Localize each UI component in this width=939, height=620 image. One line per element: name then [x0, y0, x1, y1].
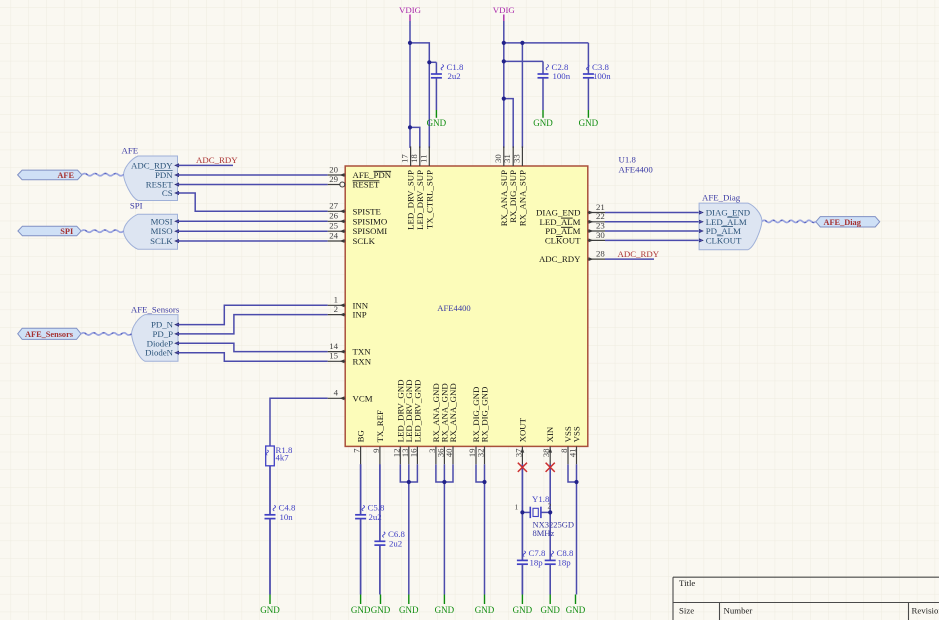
svg-text:ADC_RDY: ADC_RDY: [618, 249, 660, 259]
svg-text:ADC_RDY: ADC_RDY: [131, 160, 173, 170]
svg-text:CLKOUT: CLKOUT: [545, 235, 581, 245]
svg-text:TX_REF: TX_REF: [375, 410, 385, 442]
svg-text:2: 2: [334, 304, 338, 314]
svg-text:18p: 18p: [558, 558, 572, 568]
svg-text:SPISTE: SPISTE: [353, 206, 381, 216]
svg-text:RX_ANA_SUP: RX_ANA_SUP: [517, 170, 527, 226]
svg-text:RX_ANA_GND: RX_ANA_GND: [448, 383, 458, 442]
svg-text:29: 29: [329, 174, 338, 184]
svg-text:2u2: 2u2: [448, 71, 461, 81]
svg-text:GND: GND: [533, 118, 553, 128]
svg-text:32: 32: [476, 449, 486, 458]
svg-text:7: 7: [352, 448, 362, 453]
svg-text:LED_DRV_GND: LED_DRV_GND: [412, 380, 422, 443]
svg-text:40: 40: [444, 448, 454, 457]
svg-text:SCLK: SCLK: [150, 236, 173, 246]
svg-text:15: 15: [329, 351, 338, 361]
svg-text:BG: BG: [356, 430, 366, 443]
svg-text:28: 28: [596, 249, 605, 259]
svg-text:4: 4: [334, 388, 339, 398]
svg-text:33: 33: [511, 154, 521, 163]
svg-text:GND: GND: [540, 605, 560, 615]
svg-text:U1.8: U1.8: [619, 155, 637, 165]
svg-text:DiodeN: DiodeN: [145, 348, 173, 358]
svg-text:MOSI: MOSI: [151, 216, 173, 226]
svg-text:Title: Title: [679, 578, 695, 588]
svg-text:TX_CTRL_SUP: TX_CTRL_SUP: [424, 170, 434, 229]
svg-text:24: 24: [329, 230, 338, 240]
svg-text:TXN: TXN: [353, 347, 372, 357]
svg-text:4k7: 4k7: [276, 453, 290, 463]
svg-text:PDN: PDN: [155, 170, 173, 180]
svg-text:RX_DIG_GND: RX_DIG_GND: [480, 387, 490, 443]
svg-text:MISO: MISO: [151, 226, 173, 236]
svg-text:25: 25: [329, 221, 338, 231]
svg-text:9: 9: [371, 448, 381, 453]
svg-text:41: 41: [568, 449, 578, 458]
svg-text:CS: CS: [162, 188, 173, 198]
svg-text:Revision: Revision: [912, 605, 939, 615]
svg-text:GND: GND: [435, 605, 455, 615]
svg-text:100n: 100n: [593, 71, 611, 81]
svg-text:ADC_RDY: ADC_RDY: [196, 155, 238, 165]
svg-text:18p: 18p: [530, 558, 544, 568]
svg-text:GND: GND: [399, 605, 419, 615]
svg-text:GND: GND: [371, 605, 391, 615]
svg-text:VSS: VSS: [572, 426, 582, 442]
svg-text:AFE: AFE: [122, 146, 139, 156]
svg-text:26: 26: [329, 211, 338, 221]
svg-text:GND: GND: [351, 605, 371, 615]
svg-text:AFE_Sensors: AFE_Sensors: [25, 330, 74, 339]
svg-text:11: 11: [418, 155, 428, 163]
svg-text:20: 20: [329, 164, 338, 174]
svg-text:VDIG: VDIG: [493, 5, 516, 15]
svg-text:100n: 100n: [553, 71, 571, 81]
svg-text:SPI: SPI: [60, 227, 73, 236]
svg-text:30: 30: [596, 230, 605, 240]
svg-text:8MHz: 8MHz: [533, 528, 555, 538]
svg-text:SPISIMO: SPISIMO: [353, 216, 388, 226]
svg-text:VCM: VCM: [353, 393, 373, 403]
svg-text:16: 16: [408, 448, 418, 457]
svg-text:AFE4400: AFE4400: [437, 303, 470, 313]
svg-text:LED_DRV_SUP: LED_DRV_SUP: [415, 170, 425, 230]
svg-text:SPISOMI: SPISOMI: [353, 226, 388, 236]
svg-text:AFE: AFE: [57, 171, 74, 180]
svg-text:GND: GND: [513, 605, 533, 615]
svg-text:INP: INP: [353, 310, 367, 320]
svg-text:AFE_Diag: AFE_Diag: [824, 218, 862, 227]
svg-text:GND: GND: [475, 605, 495, 615]
svg-text:SCLK: SCLK: [353, 236, 376, 246]
svg-text:GND: GND: [260, 605, 280, 615]
svg-text:XIN: XIN: [545, 426, 555, 442]
svg-text:GND: GND: [566, 605, 586, 615]
svg-text:2: 2: [548, 502, 552, 511]
svg-text:GND: GND: [427, 118, 447, 128]
svg-text:Size: Size: [679, 605, 694, 615]
svg-text:CLKOUT: CLKOUT: [706, 235, 742, 245]
svg-text:GND: GND: [579, 118, 599, 128]
svg-text:XOUT: XOUT: [517, 417, 527, 442]
svg-text:10n: 10n: [280, 512, 294, 522]
svg-text:RXN: RXN: [353, 356, 372, 366]
svg-text:14: 14: [329, 341, 338, 351]
svg-text:1: 1: [515, 503, 519, 512]
svg-text:SPI: SPI: [130, 201, 143, 211]
svg-text:27: 27: [329, 201, 338, 211]
svg-text:Number: Number: [724, 605, 753, 615]
svg-text:AFE_Sensors: AFE_Sensors: [131, 304, 180, 314]
svg-text:18: 18: [409, 154, 419, 163]
svg-text:AFE_Diag: AFE_Diag: [702, 192, 741, 202]
svg-text:AFE4400: AFE4400: [619, 165, 654, 175]
svg-text:ADC_RDY: ADC_RDY: [539, 254, 581, 264]
svg-text:2u2: 2u2: [389, 539, 402, 549]
svg-text:VDIG: VDIG: [399, 5, 422, 15]
